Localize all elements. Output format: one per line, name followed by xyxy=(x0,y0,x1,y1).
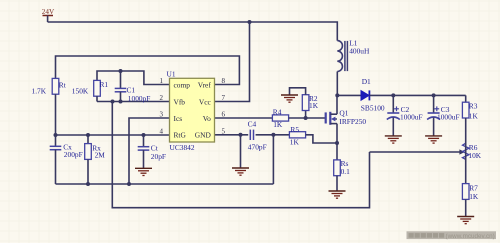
svg-text:1K: 1K xyxy=(273,120,283,129)
svg-text:SB5100: SB5100 xyxy=(361,104,385,113)
svg-text:R3: R3 xyxy=(469,101,478,110)
svg-text:Q1: Q1 xyxy=(339,108,348,117)
svg-text:1K: 1K xyxy=(290,138,300,147)
svg-text:3: 3 xyxy=(160,111,164,119)
svg-text:Vcc: Vcc xyxy=(199,97,212,106)
svg-text:20pF: 20pF xyxy=(151,152,166,161)
svg-text:1K: 1K xyxy=(309,101,319,110)
svg-text:C4: C4 xyxy=(248,120,257,129)
svg-text:1000uF: 1000uF xyxy=(400,113,423,122)
svg-text:U1: U1 xyxy=(167,70,176,79)
svg-text:4: 4 xyxy=(160,127,164,135)
svg-text:Vo: Vo xyxy=(203,114,211,123)
svg-text:Vref: Vref xyxy=(198,80,212,89)
svg-text:5: 5 xyxy=(222,127,226,135)
svg-text:(www.mcudev.cn): (www.mcudev.cn) xyxy=(446,233,495,240)
svg-text:0.1: 0.1 xyxy=(341,167,351,176)
svg-text:1000pF: 1000pF xyxy=(128,94,151,103)
svg-text:10K: 10K xyxy=(468,151,481,160)
svg-text:1: 1 xyxy=(160,77,164,85)
svg-text:400uH: 400uH xyxy=(349,46,370,55)
svg-text:1K: 1K xyxy=(469,192,479,201)
svg-text:2M: 2M xyxy=(95,151,106,160)
svg-text:1000uF: 1000uF xyxy=(437,113,460,122)
svg-text:R5: R5 xyxy=(290,125,299,134)
svg-text:1.7K: 1.7K xyxy=(32,87,47,96)
svg-text:IRFP250: IRFP250 xyxy=(339,117,366,126)
svg-text:150K: 150K xyxy=(72,86,89,95)
svg-text:1K: 1K xyxy=(469,112,479,121)
svg-text:2: 2 xyxy=(160,94,164,102)
svg-text:UC3842: UC3842 xyxy=(170,143,195,152)
svg-text:Rt: Rt xyxy=(59,81,67,90)
svg-text:6: 6 xyxy=(222,111,226,119)
svg-text:Ics: Ics xyxy=(174,114,183,123)
svg-text:7: 7 xyxy=(222,94,226,102)
svg-text:200pF: 200pF xyxy=(64,150,83,159)
svg-text:comp: comp xyxy=(174,80,191,89)
svg-text:470pF: 470pF xyxy=(248,143,267,152)
svg-text:R4: R4 xyxy=(273,108,282,117)
svg-text:GND: GND xyxy=(195,131,212,140)
svg-text:D1: D1 xyxy=(362,77,371,86)
svg-text:R1: R1 xyxy=(100,80,109,89)
svg-text:RtG: RtG xyxy=(174,131,187,140)
svg-text:8: 8 xyxy=(222,77,226,85)
svg-text:Vfb: Vfb xyxy=(174,97,186,106)
